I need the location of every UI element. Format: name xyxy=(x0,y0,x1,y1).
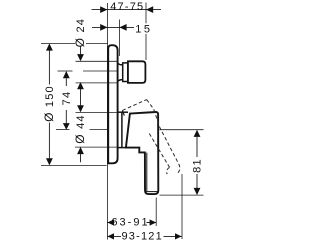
wire dim line 63-91 xyxy=(107,222,156,224)
wire pivot centerline left inner xyxy=(90,129,108,131)
arrow O24 top xyxy=(77,54,84,61)
lever front inner line xyxy=(146,153,148,191)
arrow 47-75 left xyxy=(100,6,107,13)
arrow 63-91 right xyxy=(150,219,157,225)
lever inner bottom line xyxy=(146,191,158,193)
knob cap xyxy=(128,61,145,83)
knob neck xyxy=(118,63,123,81)
arrow 74 bottom xyxy=(63,123,70,130)
arrow O150 bottom xyxy=(46,158,53,165)
wire ext line plate face xyxy=(118,20,120,57)
fixture drawing xyxy=(108,45,158,194)
wire ext line lever tip xyxy=(155,198,157,227)
arrow O24 bottom xyxy=(77,82,84,89)
arrow 81 top xyxy=(194,130,201,137)
knob ring xyxy=(123,63,128,82)
rosette face xyxy=(121,112,123,147)
wire ext line plate bottom xyxy=(41,164,107,166)
arrow 15 right xyxy=(119,24,126,31)
dashed open-position handle xyxy=(122,100,179,175)
wire ext line plate top xyxy=(41,43,108,45)
label 93-121 xyxy=(121,231,164,243)
handle grip and lever outline xyxy=(126,112,158,194)
dashed lever inner edge xyxy=(149,134,169,175)
wire ext line lever tip bottom xyxy=(160,194,204,196)
arrow O44 top xyxy=(77,105,84,112)
svg-text:Ø 44: Ø 44 xyxy=(73,114,87,143)
wire dim line vertical 81 xyxy=(196,137,198,157)
svg-text:93-121: 93-121 xyxy=(121,231,162,243)
arrow 93-121 right xyxy=(175,233,182,239)
svg-text:15: 15 xyxy=(135,24,152,36)
wire pivot centerline right xyxy=(160,129,204,131)
arrow 63-91 left xyxy=(107,219,114,225)
wire dim line 15 xyxy=(92,26,134,28)
svg-text:Ø 150: Ø 150 xyxy=(42,85,56,122)
wire ext line rosette top xyxy=(76,111,118,113)
wire ext line rosette bottom xyxy=(75,146,118,148)
svg-text:63-91: 63-91 xyxy=(111,217,149,229)
svg-text:74: 74 xyxy=(61,91,73,106)
wire dim line vertical O24 xyxy=(80,46,82,55)
wire pivot centerline left xyxy=(56,129,70,131)
rosette bottom edge xyxy=(118,147,126,149)
arrow 93-121 left xyxy=(107,233,114,239)
wire dim line 93-121 xyxy=(107,235,181,237)
wire ext line knob bottom xyxy=(76,82,118,84)
wire ext line knob top xyxy=(76,60,118,62)
arrow 74 top xyxy=(63,71,70,78)
wire ext line dashed lever tip xyxy=(181,174,183,239)
wire dim line vertical 74 xyxy=(65,78,67,86)
escutcheon plate xyxy=(108,45,117,163)
dashed lever outer edge xyxy=(154,109,180,174)
wire dim line 47-75 xyxy=(92,9,162,11)
dashed tilted grip top edge xyxy=(122,100,146,111)
svg-text:47-75: 47-75 xyxy=(110,1,144,13)
label O24 xyxy=(75,20,86,46)
wire knob centerline right xyxy=(83,70,118,72)
arrowheads xyxy=(46,6,200,239)
wire wall extension line xyxy=(106,3,108,240)
rosette top edge xyxy=(118,111,128,113)
dashed tilted grip corner edge xyxy=(147,100,154,110)
wire dim line vertical O150 xyxy=(48,50,50,84)
wire ext line knob face xyxy=(145,3,147,61)
label 63-91 xyxy=(111,217,149,229)
label 15 xyxy=(134,23,152,35)
svg-text:Ø 24: Ø 24 xyxy=(73,18,87,47)
arrow 47-75 right xyxy=(146,6,153,13)
wire dim line vertical O44 xyxy=(80,154,82,162)
arrow 15 left xyxy=(100,24,107,31)
svg-text:81: 81 xyxy=(192,158,204,173)
arrow O150 top xyxy=(46,43,53,50)
handle pivot stub xyxy=(122,110,124,115)
arrow 81 bottom xyxy=(194,188,201,195)
wire knob centerline xyxy=(58,70,73,72)
arrow O44 bottom xyxy=(77,147,84,154)
